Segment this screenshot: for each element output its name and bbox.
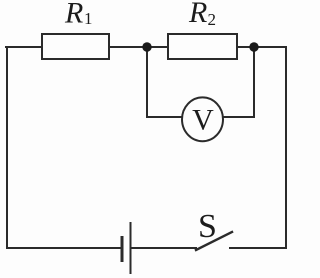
wire R2 to node B (237, 46, 286, 48)
wire right vertical (285, 47, 287, 248)
wire node B down (253, 47, 255, 117)
wire voltmeter to node B branch (222, 116, 254, 118)
wire bottom-right segment (230, 247, 286, 249)
wire node A to voltmeter (147, 116, 183, 118)
node A junction dot (142, 42, 151, 51)
resistor R2 (168, 34, 237, 59)
svg-text:V: V (192, 104, 214, 137)
svg-text:R: R (188, 0, 207, 29)
wire R1 to node A (109, 46, 168, 48)
wire node A down (146, 47, 148, 117)
svg-text:1: 1 (84, 9, 93, 28)
switch S blade (196, 232, 232, 250)
wire left vertical (6, 47, 8, 248)
voltmeter U1 circle (182, 97, 223, 141)
wire bottom-left segment (7, 247, 121, 249)
wire battery to switch (131, 247, 196, 249)
svg-text:R: R (64, 0, 83, 30)
node B junction dot (249, 42, 258, 51)
svg-text:2: 2 (208, 10, 217, 29)
battery positive plate (long) (130, 222, 132, 274)
resistor R1 (42, 34, 109, 59)
wire top-left segment (6, 46, 42, 48)
svg-text:S: S (198, 208, 217, 245)
battery negative plate (short) (121, 236, 124, 262)
